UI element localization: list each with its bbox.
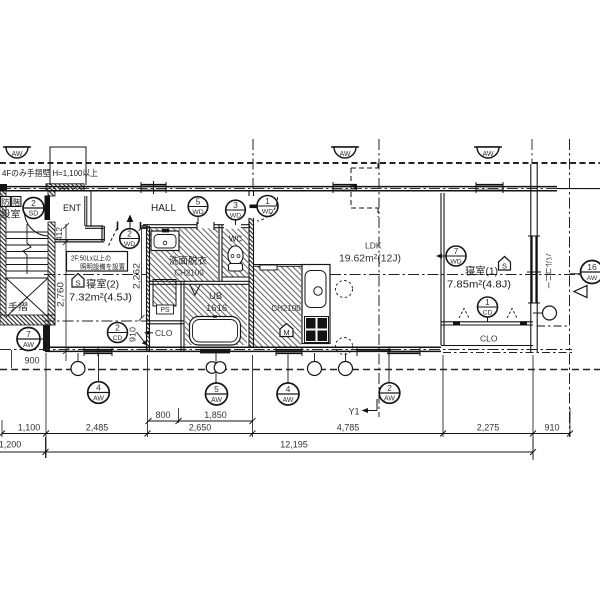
grid line Y2 dash-dot through LDK and bedroom1: [330, 274, 600, 276]
svg-text:2,760: 2,760: [56, 282, 66, 307]
svg-text:2F:50Lx以上の: 2F:50Lx以上の: [71, 254, 111, 263]
svg-text:910: 910: [128, 327, 138, 342]
svg-text:1616: 1616: [206, 303, 227, 314]
svg-text:ENT: ENT: [63, 203, 82, 213]
washer pan: [153, 280, 176, 307]
door symbol 7/WD: [446, 246, 466, 266]
svg-text:4,785: 4,785: [337, 423, 360, 433]
toilet: [228, 246, 243, 271]
building edge stub below stair: [43, 325, 50, 351]
svg-text:寝室(1): 寝室(1): [465, 265, 498, 278]
svg-text:2: 2: [115, 323, 120, 333]
svg-text:2,650: 2,650: [189, 423, 212, 433]
closet door 1/CD: [478, 297, 498, 322]
window symbol AW semicircle middle: [331, 147, 359, 158]
main center wall: [249, 218, 254, 348]
svg-text:AW: AW: [339, 151, 350, 158]
svg-text:階: 階: [12, 197, 20, 207]
WC floor hatch: [223, 229, 249, 277]
svg-text:UB: UB: [209, 291, 222, 302]
bedroom1 bottom line: [441, 345, 533, 347]
svg-text:照明設備を設置: 照明設備を設置: [80, 262, 125, 271]
stair landing cross: [6, 278, 48, 317]
stair up arrow with break: [23, 224, 31, 274]
svg-text:900: 900: [24, 356, 39, 366]
7/WD arrow: [436, 253, 446, 258]
bedroom1 closet top wall: [441, 321, 533, 325]
UB door fold: [190, 285, 200, 295]
dim line bedroom2 left: [63, 223, 69, 361]
grid line X kitchen dash-dot: [378, 139, 380, 417]
bedroom2 door leaf dashed: [109, 229, 118, 246]
washroom WC divider wall: [219, 225, 222, 282]
svg-text:AW: AW: [211, 397, 222, 404]
svg-text:AW: AW: [11, 151, 22, 158]
svg-text:4: 4: [96, 383, 101, 393]
svg-text:WD: WD: [230, 213, 241, 220]
handrail bracket: [50, 147, 86, 185]
svg-text:2,485: 2,485: [86, 423, 109, 433]
LDK door swing dashed: [257, 197, 278, 221]
svg-text:PS: PS: [160, 307, 170, 314]
balcony closet-line dash extension: [537, 325, 570, 327]
svg-text:16: 16: [587, 262, 597, 272]
svg-text:2,262: 2,262: [132, 263, 142, 289]
window symbol AW semicircle left: [3, 147, 31, 158]
washroom floor hatch: [150, 228, 218, 281]
svg-text:WD: WD: [262, 209, 273, 216]
bedroom1 house icon S: [499, 257, 511, 271]
window symbol 4/AW kitchen: [277, 383, 299, 405]
kitchen top counter line: [254, 265, 331, 267]
dim line 800/1850: [146, 418, 256, 424]
grid line Y2 dash-dot through bedroom2: [44, 274, 146, 276]
window bottom UB: [200, 349, 230, 354]
bottom wall center dash-dot: [0, 349, 572, 351]
window symbol 2/AW LDK: [379, 383, 400, 404]
window in top wall (bedroom1): [476, 182, 503, 193]
ENT step lines: [85, 196, 87, 226]
kitchen stove: [305, 317, 329, 343]
dimension extension lines: [2, 353, 570, 458]
LDK door leaf: [250, 205, 258, 209]
washroom bedroom2 wall: [147, 226, 150, 351]
stair right wall upper: [48, 191, 55, 196]
closet fold marks: [459, 309, 469, 319]
svg-text:CLO: CLO: [155, 328, 173, 338]
grid bubble mid1: [308, 362, 322, 376]
bedroom2 house icon S: [72, 274, 84, 288]
stair treads: [6, 232, 48, 278]
stair left wall: [0, 191, 6, 315]
grid line Y1 dashed: [0, 369, 600, 371]
door symbol 2/WD: [120, 229, 140, 249]
svg-text:CD: CD: [483, 310, 493, 317]
svg-text:手摺: 手摺: [8, 301, 28, 312]
svg-text:3: 3: [233, 200, 238, 210]
ENT hall divider: [90, 191, 92, 226]
window leader stubs: [78, 353, 389, 383]
window bottom bedroom2: [84, 347, 112, 356]
stair room boxed labels: [1, 197, 21, 208]
svg-text:800: 800: [155, 410, 170, 420]
window bottom kitchen: [276, 347, 302, 356]
bedroom2 note box: [67, 252, 128, 272]
kitchen upper cabinet small box: [260, 265, 277, 270]
grid bubble mid2: [339, 362, 353, 376]
svg-text:5: 5: [214, 384, 219, 394]
grid bubble left: [71, 362, 85, 376]
bedroom2 door swing arrow: [127, 215, 134, 230]
kitchen house icon M: [280, 324, 293, 338]
svg-text:7.32m²(4.5J): 7.32m²(4.5J): [69, 293, 132, 304]
svg-text:LDK: LDK: [365, 241, 382, 251]
range hood dashed outline: [351, 163, 378, 217]
entry door leaf: [45, 196, 51, 221]
stair bottom wall: [0, 315, 55, 325]
CLO UB divider wall: [181, 281, 184, 351]
main dim line: [0, 431, 573, 437]
svg-text:7: 7: [454, 246, 459, 256]
balcony sliding door LDK: [357, 347, 420, 356]
window in top wall (hall): [141, 181, 166, 194]
svg-text:WC: WC: [229, 235, 243, 244]
kitchen counter: [302, 265, 330, 344]
svg-text:S: S: [502, 262, 507, 271]
svg-text:設室: 設室: [1, 209, 21, 221]
bedroom1 right wall with window: [531, 164, 537, 352]
svg-text:7: 7: [26, 329, 31, 339]
window symbol 4/AW b2: [88, 382, 110, 404]
svg-text:バルコニー: バルコニー: [544, 253, 553, 289]
svg-text:1: 1: [265, 196, 270, 206]
door symbol 5/WD: [188, 197, 208, 225]
svg-text:AW: AW: [482, 151, 493, 158]
window symbol 5/AW: [206, 383, 228, 405]
svg-text:CH2100: CH2100: [174, 269, 204, 278]
svg-text:M: M: [283, 328, 289, 337]
bottom exterior wall: [45, 347, 441, 351]
svg-text:2,275: 2,275: [477, 423, 500, 433]
top exterior wall: [0, 184, 600, 191]
stair right wall lower: [48, 222, 55, 325]
hall south wall (washroom and WC top): [143, 222, 250, 230]
window symbol 16/AW right: [570, 261, 600, 284]
svg-text:19.62m²(12J): 19.62m²(12J): [339, 254, 401, 265]
washroom UB divider: [150, 281, 249, 284]
Y1 grid label leader: [362, 399, 378, 413]
svg-text:2: 2: [387, 383, 392, 393]
window in top wall (LDK): [333, 182, 357, 193]
svg-text:910: 910: [544, 423, 559, 433]
svg-text:AW: AW: [282, 397, 293, 404]
grid bubble double: [206, 362, 226, 374]
svg-text:12,195: 12,195: [280, 440, 308, 450]
svg-text:412: 412: [54, 227, 64, 241]
CLO arrow: [144, 331, 153, 335]
svg-text:1,850: 1,850: [204, 410, 227, 420]
dim line bedroom2 right: [139, 225, 145, 321]
svg-text:7.85m²(4.8J): 7.85m²(4.8J): [447, 280, 511, 291]
svg-text:1,200: 1,200: [0, 440, 21, 450]
svg-text:SD: SD: [29, 211, 39, 218]
refrigerator dashed circles: [336, 281, 353, 298]
door symbol 2/SD: [23, 198, 44, 219]
total dim line: [0, 437, 536, 460]
svg-text:S: S: [75, 279, 80, 288]
grid line Y3 dash-dot through bedroom2 low: [43, 320, 146, 322]
svg-text:AW: AW: [93, 396, 104, 403]
balcony bottom dashed: [443, 352, 572, 354]
grid line X balcony right dash-dot: [569, 139, 571, 437]
UB floor hatch: [185, 284, 247, 345]
svg-text:1: 1: [485, 297, 490, 307]
window symbol 7/AW: [17, 328, 45, 351]
closet door 2/CD: [108, 323, 128, 343]
svg-text:AW: AW: [23, 342, 34, 349]
kitchen strip hatch: [254, 266, 302, 347]
svg-text:防: 防: [2, 197, 10, 207]
svg-text:WD: WD: [124, 241, 135, 248]
svg-text:AW: AW: [587, 275, 598, 282]
svg-text:2: 2: [127, 229, 132, 239]
PS box: [157, 305, 174, 314]
svg-text:AW: AW: [384, 396, 395, 403]
door symbol 3/WD: [226, 200, 246, 225]
svg-text:2: 2: [31, 198, 36, 208]
svg-text:CLO: CLO: [480, 334, 498, 344]
svg-text:WD: WD: [450, 259, 461, 266]
bedroom1 left wall: [441, 193, 444, 345]
triangle marker: [574, 286, 587, 298]
entry door swing arc: [25, 212, 49, 236]
svg-text:CD: CD: [113, 335, 123, 342]
grid line X hall dash-dot: [252, 139, 254, 191]
svg-text:WD: WD: [192, 209, 203, 216]
svg-text:Y1: Y1: [348, 407, 359, 417]
svg-text:4: 4: [286, 384, 291, 394]
svg-text:1,100: 1,100: [18, 423, 41, 433]
balcony rail dashed line top: [0, 162, 600, 164]
small circle right bottom: [533, 306, 557, 320]
svg-text:CH2100: CH2100: [271, 304, 301, 313]
svg-text:HALL: HALL: [151, 203, 176, 214]
WC bottom wall: [222, 276, 249, 278]
balcony window: [527, 236, 541, 303]
bedroom2 closet top wall: [147, 321, 184, 324]
CD door leader arrow: [137, 332, 148, 346]
grid stub above partition: [531, 139, 533, 164]
window symbol AW semicircle right: [474, 147, 502, 158]
svg-text:寝室(2): 寝室(2): [86, 278, 119, 291]
svg-text:5: 5: [196, 197, 201, 207]
bedroom2 top wall with jog: [55, 222, 148, 242]
door symbol 1/WD: [257, 196, 278, 217]
hatched handrail wall segment: [46, 184, 84, 191]
washbasin: [151, 229, 179, 251]
bath tub: [190, 317, 241, 346]
svg-text:洗面脱衣: 洗面脱衣: [169, 255, 207, 267]
